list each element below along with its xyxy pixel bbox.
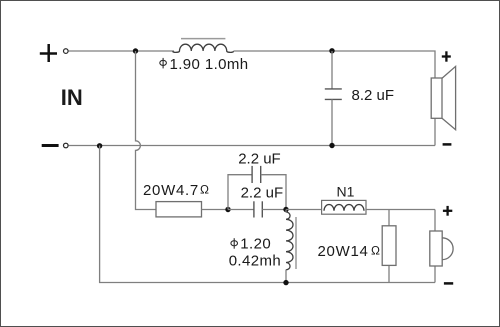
capacitor C3 2.2uF bottom branch [228, 201, 286, 217]
speaker SP1 woofer [431, 66, 455, 129]
wire negative rail [69, 145, 436, 147]
inductor L1 coil [173, 44, 234, 52]
svg-text:1.90 1.0mh: 1.90 1.0mh [170, 56, 249, 73]
inductor L3 vertical 0.42mh [286, 212, 293, 270]
svg-text:2.2 uF: 2.2 uF [238, 150, 281, 167]
svg-text:N1: N1 [337, 184, 355, 200]
inductor L3 leads [285, 210, 287, 283]
inductor N1 box [322, 200, 366, 214]
svg-text:Ω: Ω [371, 243, 380, 257]
svg-text:8.2 uF: 8.2 uF [352, 87, 395, 104]
svg-text:2.2 uF: 2.2 uF [241, 185, 284, 202]
inductor L1 core bar [181, 38, 225, 40]
svg-text:0.42mh: 0.42mh [229, 253, 281, 270]
wire N1 to tweeter [366, 209, 435, 211]
resistor R2 20W14 [382, 226, 396, 266]
node L3 bottom [283, 280, 288, 285]
speaker SP2 tweeter leads [434, 210, 436, 283]
resistor R2 20W14 leads [388, 210, 390, 283]
node negative rail to lower return [97, 143, 102, 148]
inductor N1 coil [324, 205, 364, 211]
speaker SP2 tweeter [430, 231, 453, 266]
capacitor C1 8.2uF [325, 51, 342, 146]
svg-text:IN: IN [61, 85, 83, 110]
wire positive rail right to woofer [234, 51, 436, 78]
node A [225, 207, 230, 212]
input terminal + [40, 44, 57, 62]
label L3 value phi symbol [231, 238, 238, 249]
speaker SP2 minus [444, 282, 453, 285]
wire R1 to node A [202, 209, 229, 211]
wire midrange feed with hop over negative rail [136, 51, 157, 210]
svg-text:20W14: 20W14 [318, 243, 369, 260]
node B [283, 207, 288, 212]
wire woofer bottom lead [434, 118, 436, 145]
svg-text:20W4.7: 20W4.7 [143, 182, 199, 199]
speaker SP1 minus [443, 143, 452, 146]
capacitor C2 2.2uF top branch [228, 166, 286, 210]
node C1 top [329, 48, 334, 53]
node L1 branch junction [133, 48, 138, 53]
wire node B to N1 [286, 209, 322, 211]
label L1 value phi symbol [160, 58, 167, 69]
input terminal - [42, 144, 59, 147]
inductor L3 core bar [295, 217, 297, 269]
wire lower return rail [100, 146, 435, 283]
wire positive rail left [69, 50, 175, 52]
input terminal circle + [64, 49, 69, 54]
speaker SP2 plus [443, 206, 452, 216]
node C1 bottom [329, 143, 334, 148]
speaker SP1 plus [442, 51, 451, 61]
svg-text:1.20: 1.20 [240, 235, 271, 252]
input terminal circle - [64, 143, 69, 148]
svg-text:Ω: Ω [200, 183, 209, 197]
resistor R1 20W4.7 [156, 202, 202, 217]
